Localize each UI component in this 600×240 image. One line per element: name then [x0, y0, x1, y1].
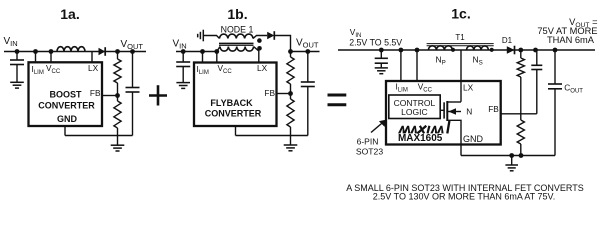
- wire VCC pin 1c: [416, 50, 418, 81]
- control logic inner box: [389, 95, 440, 119]
- wire GND pin down 1c: [460, 145, 462, 156]
- ground below input cap 1c: [380, 63, 382, 67]
- node junction R-divider top 1a: [115, 49, 120, 54]
- mosfet N gate lead: [440, 109, 444, 111]
- wire bottom rail 1c: [461, 155, 555, 157]
- node junction input cap 1b: [181, 49, 186, 54]
- node junction FB 1a: [115, 93, 120, 98]
- capacitor output C2 (1a): [132, 52, 134, 88]
- resistor R2 (1b): [290, 94, 292, 100]
- svg-text:1b.: 1b.: [227, 6, 247, 22]
- transformer T1 secondary NS winding: [467, 46, 489, 50]
- mosfet N channel bar: [446, 101, 448, 121]
- svg-text:2.5V TO 130V OR MORE THAN 6mA: 2.5V TO 130V OR MORE THAN 6mA AT 75V.: [373, 192, 555, 202]
- diode D (1a): [99, 48, 106, 56]
- ground rotated (secondary return) 1b: [202, 30, 204, 42]
- wire ILIM pin 1a: [35, 52, 37, 63]
- ground bottom 1a: [117, 136, 119, 146]
- svg-text:T1: T1: [455, 33, 465, 42]
- ground bottom 1b: [290, 136, 292, 145]
- plus operator: [149, 94, 167, 97]
- wire primary right lead to LX 1b: [254, 47, 259, 64]
- mosfet N drain lead: [447, 101, 461, 103]
- svg-text:LX: LX: [88, 63, 99, 73]
- inductor L1 (1a): [57, 47, 85, 52]
- wire bottom rail 1b: [236, 135, 308, 137]
- transformer T primary winding 1b: [220, 47, 254, 52]
- polarity dot primary 1b: [257, 46, 262, 51]
- resistor R1 (1b): [290, 52, 292, 58]
- node junction R1 top 1c: [518, 48, 523, 53]
- svg-text:THAN 6mA: THAN 6mA: [547, 35, 595, 45]
- node junction FB 1b: [288, 91, 293, 96]
- wire top rail 1c: [338, 49, 595, 51]
- node junction output cap 1b: [305, 49, 310, 54]
- polarity dot secondary 1b: [257, 38, 262, 43]
- svg-text:SOT23: SOT23: [356, 146, 383, 156]
- node junction R2 bottom 1c: [519, 153, 524, 158]
- node junction feedfwd cap 1c: [533, 48, 538, 53]
- wire VCC pin 1a: [50, 52, 52, 63]
- resistor R2 (1c): [520, 114, 522, 120]
- wire ILIM pin 1c: [400, 50, 402, 81]
- node junction input cap 1c: [379, 48, 384, 53]
- svg-text:6-PIN: 6-PIN: [357, 137, 379, 147]
- capacitor input C (1c): [380, 50, 382, 58]
- svg-text:CONVERTER: CONVERTER: [205, 109, 262, 119]
- wire FB 1b: [277, 93, 291, 95]
- node junction VIN cap 1a: [15, 49, 20, 54]
- svg-text:N: N: [466, 107, 472, 117]
- svg-text:LX: LX: [463, 83, 474, 93]
- svg-text:GND: GND: [57, 114, 78, 124]
- wire VCC pin 1b: [216, 52, 218, 64]
- arrow 6-pin sot23 to box: [371, 123, 383, 133]
- maxim chip box 1c: [386, 81, 501, 145]
- wire LX tap down 1c: [460, 50, 462, 102]
- flyback converter box 1b: [194, 63, 277, 127]
- svg-text:CONVERTER: CONVERTER: [38, 101, 95, 111]
- svg-text:BOOST: BOOST: [49, 90, 82, 100]
- node junction ILIM 1c: [399, 48, 404, 53]
- resistor R2 (1a): [117, 96, 119, 102]
- wire top rail 1a: [4, 51, 146, 53]
- transformer core 1c: [427, 43, 494, 45]
- capacitor input C (1b): [182, 52, 184, 63]
- resistor R1 (1c): [520, 50, 522, 58]
- wire GND pin down 1b: [235, 126, 237, 136]
- capacitor COUT: [554, 50, 556, 84]
- node junction VCC 1a: [49, 49, 54, 54]
- boost converter box 1a: [29, 62, 103, 126]
- svg-text:D1: D1: [502, 36, 513, 45]
- node junction VCC primary 1b: [214, 49, 219, 54]
- wire ILIM pin 1b: [202, 52, 204, 64]
- node junction COUT top: [553, 48, 558, 53]
- svg-text:1a.: 1a.: [60, 6, 79, 22]
- wire primary left lead 1b: [217, 47, 220, 52]
- svg-text:FLYBACK: FLYBACK: [210, 98, 253, 108]
- svg-text:GND: GND: [463, 134, 484, 144]
- wire input rail 1b: [176, 51, 217, 53]
- polarity dot NP: [451, 48, 455, 52]
- wire diode to VOUT 1b: [274, 36, 290, 52]
- node junction Cout top 1a: [130, 49, 135, 54]
- node junction ILIM 1a: [33, 49, 38, 54]
- polarity dot NS: [490, 48, 494, 52]
- diode D1 (1c): [507, 46, 515, 54]
- svg-text:LX: LX: [257, 63, 268, 73]
- svg-text:2.5V TO 5.5V: 2.5V TO 5.5V: [349, 37, 402, 47]
- transformer T secondary winding 1b: [220, 34, 254, 38]
- ground below input cap 1a: [10, 81, 24, 83]
- capacitor feedforward (1c): [536, 50, 538, 65]
- node junction ground 1c: [509, 153, 514, 158]
- wire LX pin 1a: [91, 52, 93, 63]
- node junction ILIM 1b: [200, 49, 205, 54]
- node junction VCC 1c: [415, 48, 420, 53]
- maxim logo: [398, 126, 405, 134]
- equals operator: [328, 94, 347, 97]
- diode D (1b): [267, 32, 274, 40]
- resistor R1 (1a): [117, 52, 119, 60]
- ground below input cap 1b: [176, 82, 190, 84]
- svg-text:1c.: 1c.: [451, 5, 470, 21]
- capacitor output C (1b): [307, 52, 309, 83]
- transformer T1 primary NP winding: [428, 46, 452, 50]
- capacitor input C1a: [16, 52, 18, 61]
- wire secondary left lead 1b: [203, 36, 219, 39]
- wire FB 1a: [102, 95, 118, 97]
- wire output rail 1b: [291, 51, 320, 53]
- svg-text:FB: FB: [264, 88, 275, 98]
- wire FB 1c: [501, 113, 537, 115]
- svg-text:LOGIC: LOGIC: [401, 107, 427, 117]
- node junction diode out 1b: [288, 49, 293, 54]
- mosfet N body arrow: [447, 111, 461, 113]
- svg-text:FB: FB: [488, 104, 499, 114]
- wire GND pin down 1a: [64, 126, 66, 136]
- ground bottom 1c: [511, 156, 513, 165]
- mosfet N source lead: [447, 120, 461, 144]
- wire secondary right lead 1b: [253, 36, 267, 39]
- svg-text:FB: FB: [90, 88, 101, 98]
- svg-text:MAX1605: MAX1605: [398, 133, 443, 144]
- transformer core 1b: [219, 42, 254, 44]
- svg-text:NODE 1: NODE 1: [221, 24, 254, 34]
- mosfet N gate bar: [443, 102, 445, 118]
- wire bottom rail 1a: [65, 135, 133, 137]
